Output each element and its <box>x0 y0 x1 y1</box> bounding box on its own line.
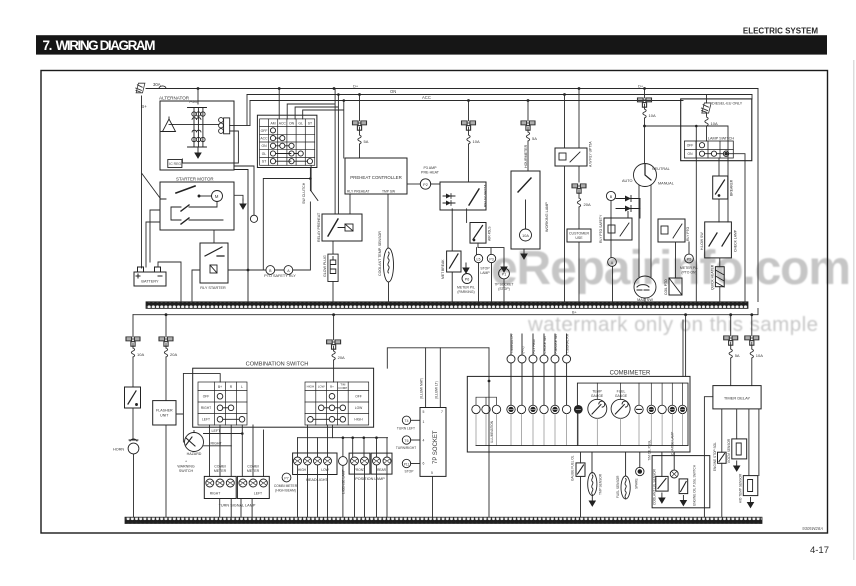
wire rly pto to coil <box>675 242 677 278</box>
wire air box distribution <box>477 243 505 301</box>
svg-text:ON: ON <box>688 152 694 156</box>
svg-text:B+: B+ <box>572 310 578 314</box>
temp sender <box>588 452 597 496</box>
svg-text:P6: P6 <box>465 277 469 281</box>
wire lamp sw to breaker <box>718 158 720 222</box>
svg-text:COMBI METER: COMBI METER <box>274 484 298 488</box>
headlamp relay box <box>713 176 728 199</box>
header black bar <box>36 35 827 54</box>
combimeter box <box>467 376 690 452</box>
svg-text:LOW: LOW <box>355 406 363 410</box>
wire alternator lower loop <box>182 131 238 163</box>
key switch table grid <box>260 119 315 165</box>
h-low switch box <box>705 222 732 258</box>
rly pto safety box <box>604 218 632 240</box>
headlight circles <box>294 457 332 465</box>
pilot lamp symbols <box>508 405 582 414</box>
svg-text:10A: 10A <box>649 113 656 118</box>
preheat controller box <box>345 158 407 194</box>
label MAG SW <box>644 298 646 302</box>
svg-text:P3 AMP: P3 AMP <box>424 166 438 170</box>
svg-text:COMBINATION SWITCH: COMBINATION SWITCH <box>246 362 309 368</box>
wire key GL column riser <box>303 101 344 159</box>
wire battery positive riser <box>142 96 161 268</box>
neutral fuse drop 10A <box>638 89 656 164</box>
svg-text:WARNING: WARNING <box>177 464 194 468</box>
svg-text:HOURMETER: HOURMETER <box>524 144 528 168</box>
svg-text:7P SOCKET: 7P SOCKET <box>495 283 514 287</box>
wire combimeter to fuel unit <box>580 452 582 517</box>
coolant level switch <box>656 452 668 503</box>
svg-text:FUEL SENSOR: FUEL SENSOR <box>616 475 620 498</box>
hourmeter fuse drop 5A <box>521 101 537 172</box>
svg-text:ENGINE STOP SOL: ENGINE STOP SOL <box>713 442 717 471</box>
svg-text:SW CLUTCH: SW CLUTCH <box>302 182 306 204</box>
svg-text:COMBI: COMBI <box>247 465 259 469</box>
page right edge shading <box>853 60 855 560</box>
wire PTO safety horizontal <box>228 168 310 271</box>
wire flasher to hazard <box>176 374 183 442</box>
wire lamp switch out <box>729 154 745 302</box>
wire B+ bus (top horizontal bus line 1) <box>166 88 758 90</box>
svg-text:HORN: HORN <box>113 448 124 452</box>
svg-text:4-17: 4-17 <box>810 545 829 556</box>
svg-text:SWITCH: SWITCH <box>179 469 194 473</box>
rly pto safety internals <box>608 223 629 236</box>
battery <box>134 267 166 286</box>
wire relay drop with connector <box>578 89 580 183</box>
svg-text:LEFT: LEFT <box>254 492 262 496</box>
customer use fuse 20A <box>577 190 591 229</box>
wire glow plug ground <box>333 282 389 302</box>
svg-text:RIGHT: RIGHT <box>201 406 211 410</box>
wire battery minus to ground strip <box>158 262 181 302</box>
wire timer left leg <box>704 397 713 517</box>
combination switch outer box <box>193 368 374 427</box>
svg-text:GLOW PLUG: GLOW PLUG <box>323 255 327 277</box>
svg-text:L5: L5 <box>477 257 481 261</box>
connector circle A upper <box>608 258 617 267</box>
air heater relay box <box>470 223 486 244</box>
svg-text:P5: P5 <box>687 257 691 261</box>
svg-text:ACC: ACC <box>279 122 287 126</box>
connector circle M1 <box>234 166 258 302</box>
svg-text:RLY PREHEAT: RLY PREHEAT <box>347 190 369 194</box>
outer diagram frame <box>41 71 828 534</box>
wire relay to horn <box>132 408 134 440</box>
relay preheat coil <box>338 224 353 231</box>
lamp switch circles <box>699 143 728 157</box>
svg-text:CHECK LAMP: CHECK LAMP <box>734 229 738 252</box>
lamp feed bus <box>298 437 388 439</box>
alternator output terminals <box>219 118 250 134</box>
key switch contact circles <box>270 128 312 164</box>
glow plug <box>328 254 338 281</box>
connector circle P2 <box>420 179 440 189</box>
svg-text:20A: 20A <box>584 202 591 207</box>
wire controller to temp sensor <box>387 194 389 248</box>
connector circle P3 <box>487 254 495 262</box>
svg-text:OFF: OFF <box>355 395 362 399</box>
svg-text:eRepairinfo.com: eRepairinfo.com <box>491 242 851 295</box>
wire controller to P2 <box>407 183 420 185</box>
working lamp switch <box>518 178 531 192</box>
svg-text:5: 5 <box>431 471 433 475</box>
wire controller to relay preheat <box>349 194 351 214</box>
svg-text:LICENSE LAMP: LICENSE LAMP <box>342 469 346 494</box>
svg-text:ALTERNATOR: ALTERNATOR <box>159 96 190 101</box>
svg-text:OFF: OFF <box>261 129 268 133</box>
svg-text:LAMP: LAMP <box>480 271 490 275</box>
svg-text:20A: 20A <box>338 355 345 360</box>
svg-text:RIGHT: RIGHT <box>210 492 221 496</box>
relay preheat box <box>322 214 362 241</box>
coolant temp sensor <box>384 248 394 282</box>
svg-text:LAMP SWITCH: LAMP SWITCH <box>708 137 735 141</box>
alternator box <box>160 101 234 170</box>
illumination feed wire <box>387 348 489 368</box>
wire bus1 drop into alternator <box>197 89 199 105</box>
met break box <box>447 209 461 302</box>
svg-text:ON: ON <box>261 144 267 148</box>
svg-text:M: M <box>215 194 219 199</box>
svg-text:H/O TEMP SENSOR: H/O TEMP SENSOR <box>739 473 743 503</box>
svg-text:ILLUMINATION: ILLUMINATION <box>490 420 494 443</box>
svg-text:REAR: REAR <box>377 468 387 472</box>
svg-text:TURN/RIGHT: TURN/RIGHT <box>396 446 416 450</box>
position lamp front box <box>349 453 370 474</box>
svg-text:ENGINE OIL P.SSL SWITCH: ENGINE OIL P.SSL SWITCH <box>692 464 696 506</box>
svg-text:AM: AM <box>270 122 275 126</box>
illumination bracket <box>476 397 497 405</box>
svg-text:OFF: OFF <box>203 395 210 399</box>
svg-text:GAUGE: GAUGE <box>615 394 628 398</box>
combimeter feed drop <box>683 315 686 377</box>
wire B to A vertical <box>611 201 613 302</box>
svg-text:T.SIGNAL LH: T.SIGNAL LH <box>510 334 514 354</box>
position front circles <box>351 457 369 465</box>
svg-text:NEUTRAL: NEUTRAL <box>652 167 670 171</box>
svg-text:HIGH: HIGH <box>354 418 363 422</box>
horn fuse drop 10A <box>126 315 144 387</box>
svg-text:GL: GL <box>298 122 303 126</box>
arrow into P1 <box>501 262 507 272</box>
svg-text:TIMER DELAY: TIMER DELAY <box>724 396 751 401</box>
svg-text:IC REG: IC REG <box>169 162 181 166</box>
svg-text:P11: P11 <box>404 462 410 466</box>
svg-text:ST: ST <box>308 122 312 126</box>
svg-text:9305W28A: 9305W28A <box>802 526 823 531</box>
svg-text:METER: METER <box>247 469 260 473</box>
light table headers <box>307 382 348 390</box>
svg-text:watermark only on this sample: watermark only on this sample <box>527 313 818 336</box>
svg-text:P.BRAKE SW: P.BRAKE SW <box>554 334 558 353</box>
wire bus2 drop to alarm relay <box>564 95 566 302</box>
turn lamp box right <box>204 476 236 498</box>
svg-text:HIGH: HIGH <box>298 468 307 472</box>
horn relay box <box>125 387 141 408</box>
wire heater to strip <box>719 258 721 302</box>
hi temp sensor box <box>743 476 758 496</box>
turn lamp circles right <box>206 479 235 487</box>
wire sol to strip <box>721 463 723 516</box>
wire flasher to ground <box>165 425 167 517</box>
svg-text:(ILLUMI MAT): (ILLUMI MAT) <box>420 378 424 399</box>
position lamp rear box <box>371 453 392 474</box>
svg-text:4: 4 <box>423 439 425 443</box>
svg-text:METER P/L: METER P/L <box>680 266 698 270</box>
svg-text:10A: 10A <box>711 121 718 126</box>
svg-text:ELECTRIC SYSTEM: ELECTRIC SYSTEM <box>743 27 818 36</box>
svg-text:5A: 5A <box>735 353 740 358</box>
safety relay contact <box>469 189 479 205</box>
mag switch circle <box>634 276 656 298</box>
wire socket to ground <box>432 476 434 516</box>
alarm relay internals <box>559 152 580 162</box>
svg-text:OFF: OFF <box>687 144 694 148</box>
top ground hatch strip <box>146 302 748 309</box>
fusible link FL1 <box>135 83 145 93</box>
connector circle P5 <box>685 242 694 263</box>
svg-text:TMP SW: TMP SW <box>382 190 396 194</box>
svg-text:FUEL: FUEL <box>617 390 626 394</box>
svg-text:RLY PTO: RLY PTO <box>686 227 690 241</box>
working lamp box <box>511 171 540 249</box>
pto diode 1 <box>616 196 640 202</box>
wire diodes to pto safety relay <box>628 199 640 219</box>
neutral switch circle <box>634 164 657 187</box>
timer fuse drop 5A <box>724 315 740 386</box>
customer use box <box>567 229 591 242</box>
svg-text:I+MID: I+MID <box>189 100 199 104</box>
starter contact diagonal <box>176 186 195 193</box>
svg-text:T/M OIL P.SSL: T/M OIL P.SSL <box>647 439 651 460</box>
preheat fuse drop 5A <box>353 95 369 159</box>
fuel sender <box>621 452 630 499</box>
svg-text:D+: D+ <box>638 83 644 88</box>
turn lamp box left <box>237 476 269 498</box>
connector circle A lower <box>284 266 293 275</box>
connector circle P1 <box>499 268 510 279</box>
diesel fusible link <box>700 103 711 113</box>
timer outputs <box>722 409 759 476</box>
connector circle B upper <box>606 191 615 200</box>
position rear circles <box>373 457 392 465</box>
wire into turn table <box>183 374 220 382</box>
svg-text:P2: P2 <box>423 183 428 187</box>
svg-text:MAG SW: MAG SW <box>637 298 653 302</box>
svg-text:5: 5 <box>423 410 425 414</box>
svg-text:FRONT: FRONT <box>354 468 365 472</box>
connector circle T6 <box>402 436 420 444</box>
vacuum sensor box <box>732 439 747 459</box>
wire alternator to bus2 <box>246 95 248 126</box>
junction dots bottom bus <box>165 313 754 316</box>
timer delay box <box>713 386 761 409</box>
wires lamp drops <box>298 425 388 457</box>
junction dot PTO <box>247 269 250 272</box>
svg-text:BREAKER: BREAKER <box>730 179 734 196</box>
svg-text:AUTO: AUTO <box>622 179 633 183</box>
svg-text:COOLANT LVL SENSOR: COOLANT LVL SENSOR <box>652 468 656 505</box>
light table <box>305 382 369 425</box>
rly pto internals <box>661 224 682 238</box>
wire alternator to bus3 <box>249 101 251 126</box>
diesel-eu only box <box>681 99 752 161</box>
svg-text:L: L <box>241 385 243 389</box>
wires turn lamps to ground <box>220 499 252 517</box>
svg-text:TMP SENSOR: TMP SENSOR <box>599 473 603 495</box>
fuel gauge unit box <box>576 463 585 477</box>
starter motor M circle <box>198 191 223 202</box>
svg-text:PREHEAT CONTROLLER: PREHEAT CONTROLLER <box>350 175 402 180</box>
turn signal table <box>198 382 247 425</box>
alternator ground arrow <box>195 148 201 158</box>
svg-text:METER P/L: METER P/L <box>457 286 475 290</box>
key switch header labels <box>270 122 312 126</box>
temp sender ground arrow <box>589 496 595 506</box>
svg-text:RLY PTO SAFETY: RLY PTO SAFETY <box>599 214 603 243</box>
svg-text:T.SIGNAL RH: T.SIGNAL RH <box>566 333 570 353</box>
svg-text:10A: 10A <box>137 352 144 357</box>
svg-text:USE: USE <box>575 236 583 240</box>
svg-text:LOW: LOW <box>318 385 325 389</box>
svg-text:RLY STARTER: RLY STARTER <box>200 286 226 290</box>
svg-text:P3: P3 <box>489 257 493 261</box>
wire starter links <box>146 210 160 267</box>
coil pto box <box>669 278 682 295</box>
headlight box <box>293 453 337 475</box>
license lamp circle <box>339 457 348 466</box>
connector circle P11 <box>402 459 420 467</box>
junction dot neutral <box>643 125 646 128</box>
svg-text:T4: T4 <box>405 419 409 423</box>
svg-text:SPARE: SPARE <box>634 478 638 489</box>
svg-text:COOLANT TEMP. SENSOR: COOLANT TEMP. SENSOR <box>378 231 382 276</box>
customer use pair <box>572 184 586 193</box>
wire key ON column riser <box>295 95 338 215</box>
warning circles right <box>635 405 687 413</box>
svg-text:COMP: COMP <box>338 386 347 390</box>
wire bus1 right wrap down <box>757 89 759 302</box>
wire bottom feed bus <box>133 309 758 315</box>
svg-text:CHOKE SW: CHOKE SW <box>543 336 547 353</box>
connector circle P4 <box>462 263 472 284</box>
wire key AM column to bus1 <box>278 89 280 119</box>
junction dot illumi <box>488 380 491 383</box>
svg-text:H.LOW SW: H.LOW SW <box>700 232 704 250</box>
svg-text:(PTO ON): (PTO ON) <box>681 270 696 274</box>
svg-text:ACC: ACC <box>260 137 268 141</box>
pilot collector bus <box>476 414 683 446</box>
svg-text:P1: P1 <box>502 272 507 276</box>
svg-text:RIGHT: RIGHT <box>211 441 223 445</box>
relay starter coil <box>210 265 217 273</box>
svg-text:GL: GL <box>262 152 267 156</box>
wire bus2 right wrap down <box>751 95 753 99</box>
svg-text:1: 1 <box>423 420 425 424</box>
wire bus3 ACC <box>250 100 683 102</box>
starter solenoid contacts <box>160 199 223 224</box>
svg-text:6: 6 <box>423 462 425 466</box>
horn <box>128 439 139 454</box>
wire turn table to hazard lines <box>231 425 242 446</box>
IC regulator box <box>168 160 182 168</box>
hi temp sensor arrow <box>748 498 754 508</box>
svg-text:COIL PTO: COIL PTO <box>664 279 668 295</box>
svg-text:B+: B+ <box>218 385 222 389</box>
connector circle B lower <box>266 266 275 275</box>
svg-text:10A: 10A <box>473 139 480 144</box>
svg-text:RLY HEAT: RLY HEAT <box>532 338 536 353</box>
wire light table drop <box>332 425 334 438</box>
svg-text:ON: ON <box>390 89 396 94</box>
wire safety relay to air box <box>466 209 468 223</box>
bottom ground hatch strip <box>125 517 762 523</box>
wire hazard left right <box>204 434 243 446</box>
socket pin numbers <box>423 410 444 475</box>
lamp switch table <box>684 141 733 158</box>
connector circle T4 <box>402 416 420 424</box>
headlight fuse drop 20A <box>327 315 345 382</box>
wire key ACC column riser <box>287 89 335 215</box>
turn table headers <box>218 385 243 389</box>
wire relay preheat to glow plug <box>332 241 334 254</box>
svg-text:HAZARD: HAZARD <box>187 452 202 456</box>
fuse bump on B+ feed <box>146 86 168 89</box>
key switch row labels <box>260 129 268 164</box>
ground arrow starter <box>234 195 243 200</box>
turn lamp circles left <box>239 479 268 487</box>
svg-text:MET BREAK: MET BREAK <box>441 259 445 279</box>
svg-text:(STOP): (STOP) <box>498 287 509 291</box>
svg-text:QUICK HEATER: QUICK HEATER <box>711 264 715 290</box>
svg-text:COMBIMETER: COMBIMETER <box>610 370 651 376</box>
svg-text:CHARGE LAMP: CHARGE LAMP <box>670 432 674 455</box>
svg-text:AIR 45LS: AIR 45LS <box>488 226 492 241</box>
svg-text:UNIT: UNIT <box>160 413 169 417</box>
svg-text:TURN SIGNAL LAMP: TURN SIGNAL LAMP <box>219 504 256 508</box>
turn table rows <box>201 395 211 422</box>
flasher unit box <box>153 401 176 425</box>
wire neutral node to hlow <box>645 126 729 302</box>
svg-text:DIESEL-EU ONLY: DIESEL-EU ONLY <box>712 102 743 106</box>
svg-text:MANUAL: MANUAL <box>658 182 674 186</box>
svg-text:10A: 10A <box>756 353 763 358</box>
safety relay box U2 <box>440 182 486 210</box>
wires turn lamps vertical <box>210 425 264 476</box>
junction dots on buses <box>197 87 646 102</box>
relay starter contact <box>205 247 224 256</box>
diesel fuse 10A <box>705 95 718 141</box>
fuel gauge <box>611 399 630 418</box>
svg-text:STARTER MOTOR: STARTER MOTOR <box>176 177 214 182</box>
svg-text:5A: 5A <box>364 139 369 144</box>
combimeter input circles row <box>507 334 571 405</box>
safety relay fuse drop 10A <box>462 101 480 183</box>
svg-text:ACC: ACC <box>422 95 431 100</box>
svg-text:CUSTOMER: CUSTOMER <box>569 232 589 236</box>
alternator stator coil <box>161 117 176 132</box>
svg-text:P7: P7 <box>284 476 288 480</box>
svg-text:V.OCM SENSOR: V.OCM SENSOR <box>727 438 731 463</box>
hour meter circle 10A <box>520 200 532 241</box>
svg-text:STOP: STOP <box>480 267 490 271</box>
svg-text:RELAY GP15A: RELAY GP15A <box>484 184 488 207</box>
svg-text:10A: 10A <box>522 234 529 238</box>
svg-text:LEFT: LEFT <box>202 418 210 422</box>
svg-text:RELAY PREHEAT: RELAY PREHEAT <box>317 212 321 242</box>
